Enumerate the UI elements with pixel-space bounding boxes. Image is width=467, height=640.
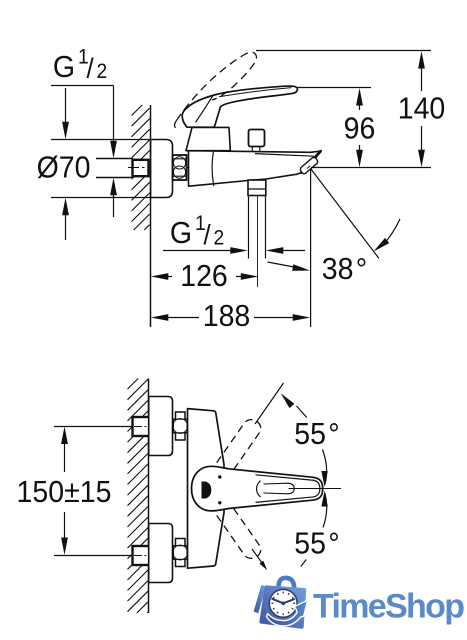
dimension 55° upper arrowhead at reference line	[281, 393, 295, 408]
svg-text:/: /	[87, 53, 95, 84]
bottom view: lever logo mark	[202, 482, 212, 499]
svg-text:Ø70: Ø70	[37, 150, 91, 184]
dimension 55° lower centerline arrowhead	[321, 491, 327, 507]
top view: body seam	[212, 151, 214, 186]
svg-text:55°: 55°	[294, 417, 339, 451]
dimension 140	[418, 51, 425, 69]
bottom view: wall hatching	[128, 379, 149, 614]
logo: bag	[261, 587, 304, 626]
dimension 126	[151, 273, 169, 280]
bottom view: lower supply stub	[133, 546, 150, 565]
top view: union nut	[173, 155, 187, 180]
bottom view: upper supply stub	[133, 417, 150, 436]
dimension 140 extension line (dashed lever top)	[256, 50, 431, 52]
svg-text:/: /	[204, 219, 212, 250]
top view: diverter knob	[249, 130, 265, 147]
bottom view: lower union nut	[173, 539, 187, 567]
logo: clock hands	[272, 599, 294, 604]
svg-text:TimeShop: TimeShop	[313, 588, 465, 626]
svg-text:96: 96	[344, 111, 376, 145]
top view: faucet body and spout	[189, 151, 321, 187]
dimension 188	[151, 314, 169, 321]
top view: escutcheon flange	[151, 140, 173, 198]
bottom view: lever handle	[192, 466, 323, 511]
svg-text:2: 2	[97, 60, 108, 83]
dimension Ø70	[65, 88, 67, 124]
dimension 55° lower stub below label	[301, 560, 307, 567]
logo: bag stripe	[254, 585, 266, 613]
dimension 140 bottom reference line	[311, 167, 431, 169]
svg-text:2: 2	[214, 227, 225, 250]
dimension G1/2 supply arrows	[113, 86, 115, 145]
top view: wall face line	[150, 105, 152, 327]
dimension 150±15	[61, 427, 68, 445]
top view: lever handle raised (dashed)	[177, 52, 257, 120]
dimension Ø70 extension lines	[51, 140, 150, 198]
top view: lever handle (solid)	[182, 86, 297, 127]
dimension 55° upper centerline arrowhead	[321, 471, 327, 487]
bottom view: lever dots	[218, 475, 221, 478]
bottom view: upper escutcheon	[149, 397, 173, 456]
top view: spout end face (thick)	[302, 151, 321, 172]
bottom view: lower escutcheon	[149, 524, 173, 583]
dimension 96 extension line	[298, 87, 372, 89]
svg-text:55°: 55°	[294, 526, 339, 560]
dimension 188 spout tip extension line	[310, 170, 312, 327]
bottom view: upper union nut	[173, 412, 187, 440]
svg-text:188: 188	[203, 299, 251, 333]
logo: clock face	[269, 589, 297, 617]
top view: spout inner top edge	[255, 154, 314, 157]
top view: shower hose lines	[249, 196, 266, 259]
svg-text:140: 140	[398, 91, 446, 125]
top view: wall hatching	[132, 105, 150, 230]
logo: bag handle	[278, 578, 294, 591]
dimension 55° lower clipped arrowhead	[259, 561, 267, 571]
dimension 55° upper curve to centerline	[323, 450, 327, 485]
bottom view: centerline	[289, 488, 342, 490]
dimension 150±15 extension lines	[54, 427, 133, 556]
bottom view: faucet body	[188, 409, 225, 569]
top view: supply pipe G1/2	[96, 159, 133, 178]
top view: centerline	[128, 167, 324, 169]
dimension G1/2 hose arrows	[163, 250, 231, 252]
svg-text:150±15: 150±15	[17, 475, 112, 509]
top view: wall socket square	[133, 160, 149, 176]
top view: spout aerator tip	[300, 157, 317, 173]
logo: swoosh arrow	[267, 600, 308, 626]
bottom view: lever dashed up position	[217, 420, 261, 472]
top view: cartridge cap	[186, 127, 230, 150]
dimension 96	[356, 88, 363, 106]
dimension 38° left arrow	[268, 262, 295, 267]
svg-text:126: 126	[180, 259, 228, 293]
logo: clock ticks	[272, 592, 295, 615]
top view: shower hose socket	[248, 180, 266, 196]
svg-text:G: G	[170, 216, 192, 250]
bottom view: lever dashed down position	[217, 507, 261, 559]
dimension 38° right arrow	[381, 219, 400, 247]
dimension 55° lower reference line	[252, 549, 264, 565]
svg-text:G: G	[53, 50, 75, 84]
dimension 55° lower curve from centerline	[323, 493, 327, 528]
dimension 55° upper reference line	[255, 383, 284, 424]
dimension 38° angled line	[311, 169, 380, 259]
bottom view: wall face line	[148, 379, 150, 614]
svg-text:38°: 38°	[322, 252, 367, 286]
